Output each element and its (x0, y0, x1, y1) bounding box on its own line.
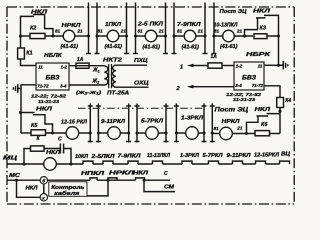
svg-text:10-13ПКЛ: 10-13ПКЛ (214, 23, 238, 29)
svg-text:11-21-23: 11-21-23 (38, 99, 59, 105)
wire cable vertical pair 7 (row2) (164, 104, 179, 143)
svg-text:С: С (58, 137, 62, 143)
contact 9-11РКЛ (233, 161, 243, 164)
svg-text:11: 11 (38, 64, 43, 69)
wire U2 pin11 to ground (264, 64, 279, 66)
wire cable vertical pair 3 (163, 3, 177, 54)
svg-text:б: б (42, 177, 45, 183)
contact НРКЛ (108, 178, 117, 180)
svg-text:НКЛ: НКЛ (36, 106, 52, 112)
svg-text:Пост ЭЦ: Пост ЭЦ (215, 107, 249, 114)
ground GND1 (left) (13, 84, 21, 92)
wire U1 pin71-72 left and down (21, 85, 36, 133)
lamp 1ПКЛ (107, 30, 119, 42)
capacitor C1 (С) (60, 144, 63, 154)
svg-text:7-9ЛКЛ: 7-9ЛКЛ (118, 154, 142, 160)
svg-text:СМ: СМ (164, 185, 175, 191)
contact НКЛ (top-left, parallels R2) (21, 15, 54, 37)
svg-text:НПКЛ: НПКЛ (81, 171, 105, 177)
svg-text:5-7РКЛ: 5-7РКЛ (141, 118, 163, 124)
wire lamp НРКЛ right (75, 35, 89, 37)
resistor R5 (К5) (21, 132, 31, 134)
svg-text:НКЛ: НКЛ (133, 171, 149, 177)
wire cable route boundary (dash-dot) (78, 107, 203, 109)
svg-text:БВЗ: БВЗ (242, 74, 256, 81)
svg-text:1ПКЛ: 1ПКЛ (105, 22, 121, 28)
svg-text:НРКЛ: НРКЛ (222, 119, 240, 125)
svg-text:(41-61): (41-61) (61, 44, 79, 50)
svg-text:7-9ПКЛ: 7-9ПКЛ (177, 22, 201, 28)
svg-text:НКТ2: НКТ2 (103, 58, 122, 64)
svg-text:МС: МС (9, 173, 21, 179)
svg-text:(41-61): (41-61) (182, 44, 200, 50)
contact НКЛ (top-right, parallels R3) (245, 15, 279, 36)
wire secondary bottom ОХЦ (116, 86, 149, 88)
svg-text:21: 21 (236, 28, 243, 33)
wire bus МЦ with contacts (56, 163, 289, 165)
svg-text:(41-61): (41-61) (220, 44, 238, 50)
wire МС from border (7, 179, 40, 181)
svg-text:21: 21 (158, 29, 165, 34)
svg-text:НРКЛ: НРКЛ (109, 171, 135, 177)
svg-text:71-72: 71-72 (37, 84, 49, 89)
fuse F2 (1А) (208, 63, 222, 68)
svg-text:кабеля: кабеля (54, 190, 79, 197)
svg-text:НБРК: НБРК (246, 52, 271, 58)
block Контроль кабеля (49, 182, 87, 197)
svg-text:(41-61): (41-61) (105, 44, 123, 50)
svg-text:12-22; 72-82: 12-22; 72-82 (226, 92, 261, 98)
svg-text:(Ж2-Ж1): (Ж2-Ж1) (76, 90, 102, 96)
svg-text:9-11РКЛ: 9-11РКЛ (227, 153, 252, 159)
svg-text:3-4: 3-4 (235, 83, 242, 88)
svg-text:1: 1 (180, 64, 183, 70)
node junction dots near R2 (19, 35, 22, 38)
lamp 5-7РКЛ (137, 132, 146, 134)
svg-text:1-2: 1-2 (61, 64, 68, 69)
svg-text:ПХЦ: ПХЦ (134, 58, 148, 64)
svg-text:2-5 ПКЛ: 2-5 ПКЛ (137, 21, 163, 27)
svg-text:НКЛ: НКЛ (26, 185, 39, 191)
lamp 2-5ПКЛ (145, 30, 157, 42)
wire cable vertical pair 4 (203, 3, 217, 54)
lamp 9-11РКЛ (98, 132, 107, 134)
wire cable vertical pair 2 (124, 3, 138, 54)
resistor R7 (К) of RC snubber (24, 149, 31, 165)
lamp НРКЛ (63, 30, 75, 42)
svg-text:НКЛ: НКЛ (255, 107, 271, 113)
svg-text:1-3РКЛ: 1-3РКЛ (180, 153, 200, 159)
lamp к (40, 194, 47, 201)
svg-text:Ж1: Ж1 (92, 68, 100, 74)
svg-text:МЦ: МЦ (3, 155, 17, 161)
wire U2 pin71-72 to R4 (264, 86, 280, 98)
svg-text:К1: К1 (26, 50, 32, 56)
resistor R1 (К1) vertical (20, 36, 22, 48)
wire МЦ from border (7, 163, 44, 165)
wire cable vertical pair 1 (86, 3, 100, 54)
wire to lamp 7-9ПКЛ (174, 35, 184, 37)
svg-text:2-5ЛКЛ: 2-5ЛКЛ (90, 154, 115, 160)
svg-text:1-2: 1-2 (236, 64, 243, 69)
wire down to lamp к (17, 180, 41, 197)
contact 11-13ЛКЛ (153, 161, 163, 164)
svg-text:11: 11 (258, 63, 263, 68)
svg-text:(41-61): (41-61) (143, 45, 161, 51)
wire lamp 7-9ПКЛ right (196, 35, 205, 37)
svg-text:ОХЦ: ОХЦ (134, 81, 149, 87)
contact 1-3РКЛ (182, 161, 192, 164)
lamp НРКЛ (row2) (212, 133, 219, 135)
svg-text:81: 81 (177, 29, 183, 34)
svg-text:3-4: 3-4 (60, 84, 67, 89)
wire to lamp 10-13ПКЛ (214, 35, 223, 37)
block U1 БВЗ (left) (36, 63, 69, 90)
wire secondary top ПХЦ (116, 64, 147, 66)
svg-text:Пост ЭЦ: Пост ЭЦ (220, 9, 247, 15)
svg-text:ПТ-25А: ПТ-25А (107, 90, 129, 96)
svg-text:НКЛ: НКЛ (46, 150, 60, 156)
svg-text:81: 81 (214, 29, 220, 34)
svg-text:21: 21 (120, 29, 127, 34)
svg-text:12-15 РКЛ: 12-15 РКЛ (61, 119, 87, 125)
fuse F1 (1А) (76, 63, 89, 68)
svg-text:9-11РКЛ: 9-11РКЛ (101, 119, 125, 125)
ground GND2 (right) (279, 61, 288, 69)
contact ВЦ (280, 161, 290, 164)
svg-text:К5: К5 (31, 123, 38, 129)
lamp 7-9ПКЛ (184, 30, 196, 42)
svg-text:11-13ЛКЛ: 11-13ЛКЛ (147, 153, 171, 159)
svg-text:10КЛ: 10КЛ (75, 154, 89, 160)
svg-text:К4: К4 (285, 98, 291, 104)
lamp 10-13ПКЛ (223, 30, 235, 42)
contact 2-5ЛКЛ (103, 161, 113, 164)
svg-text:11-21-23: 11-21-23 (233, 97, 255, 103)
contact НКЛ (parallels R5) (21, 113, 53, 134)
resistor R6 (К6) (255, 131, 270, 136)
svg-text:НБЛК: НБЛК (44, 53, 62, 59)
wire cable vertical pair 5 (row2) (88, 104, 101, 143)
svg-text:81: 81 (98, 29, 104, 34)
svg-text:21: 21 (197, 29, 204, 34)
svg-text:21: 21 (77, 29, 84, 34)
core of T1 (109, 64, 112, 88)
svg-text:1-3РКЛ: 1-3РКЛ (181, 116, 203, 122)
contact НПКЛ (90, 178, 97, 180)
svg-text:БВЗ: БВЗ (46, 74, 60, 81)
wire to lamp 2-5ПКЛ (136, 35, 146, 37)
block U2 БВЗ (right) (234, 62, 264, 90)
svg-text:12-22; 72-82: 12-22; 72-82 (31, 94, 66, 100)
svg-text:5-7РКЛ: 5-7РКЛ (203, 153, 224, 159)
wire lamp 1ПКЛ right (119, 35, 127, 37)
svg-text:71-72: 71-72 (252, 83, 264, 88)
svg-text:НКЛ: НКЛ (253, 9, 270, 15)
lamp б (40, 177, 47, 184)
contact 7-9ЛКЛ (128, 161, 138, 164)
contact НКЛ (МС row) (136, 178, 145, 180)
svg-text:81: 81 (214, 126, 220, 131)
svg-text:ВЦ: ВЦ (281, 152, 290, 158)
wire к lamp bottom to МС (87, 180, 108, 196)
contact 5-7РКЛ (209, 161, 219, 164)
frame border dash-dot (7, 7, 294, 204)
winding Ж (primary) (69, 66, 108, 85)
wire to lamp 1ПКЛ (97, 35, 107, 37)
wire cable vertical pair 8 (row2) (202, 104, 215, 143)
svg-text:С: С (164, 171, 168, 177)
svg-text:81: 81 (55, 29, 61, 34)
wire МС continues right (48, 179, 171, 181)
svg-text:КЗ: КЗ (260, 26, 267, 32)
resistor R2 (К2) (21, 35, 31, 37)
resistor R3 (КЗ) (254, 34, 267, 39)
wire lamp 2-5ПКЛ right (157, 35, 166, 37)
contact 10КЛ (83, 161, 93, 164)
wire СМ branch (144, 180, 175, 191)
lamp 1-3РКЛ (176, 132, 185, 134)
wire between lamps б and к (43, 184, 45, 194)
svg-text:Ж2: Ж2 (92, 79, 100, 85)
svg-text:12-15РКЛ: 12-15РКЛ (254, 153, 280, 159)
svg-text:21: 21 (236, 125, 243, 130)
svg-text:К6: К6 (261, 122, 268, 128)
svg-text:1А: 1А (77, 57, 84, 63)
resistor R4 (К4) vertical (277, 98, 284, 108)
wire cable vertical pair 6 (row2) (126, 104, 139, 143)
contact 12-15РКЛ (256, 161, 266, 164)
svg-text:К2: К2 (30, 26, 36, 32)
svg-text:81: 81 (138, 29, 144, 34)
wire lamp 10-13ПКЛ right (234, 35, 253, 37)
svg-text:1А: 1А (211, 54, 218, 60)
winding secondary of T1 (113, 65, 116, 87)
